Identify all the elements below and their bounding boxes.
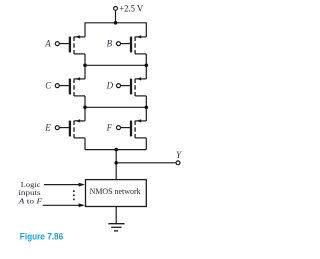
wire link row2	[85, 106, 146, 108]
svg-text:+2.5 V: +2.5 V	[119, 3, 143, 13]
transistor A channel (dashed)	[73, 37, 75, 54]
transistor E source stub	[74, 120, 85, 122]
transistor C source stub	[74, 78, 85, 80]
transistor C source arrow	[75, 77, 80, 80]
transistor E channel (dashed)	[73, 121, 75, 138]
node output tap	[114, 161, 118, 165]
wire supply stem	[115, 10, 117, 22]
wire A drain down	[84, 54, 86, 65]
node link3 center	[114, 148, 118, 152]
transistor A drain stub	[74, 53, 85, 55]
transistor D (PMOS) gate circle	[117, 84, 121, 88]
wire output branch	[116, 162, 176, 164]
NMOS network box	[86, 180, 147, 207]
input arrow bottom	[43, 204, 80, 206]
wire top rail	[85, 23, 146, 37]
transistor E source arrow	[75, 119, 80, 122]
transistor F gate bar	[130, 121, 132, 137]
ground	[108, 223, 124, 225]
transistor A source stub	[74, 36, 85, 38]
wire E drain down	[84, 138, 86, 150]
node link1 right	[145, 64, 149, 68]
input arrow top	[44, 184, 80, 186]
svg-text:NMOS network: NMOS network	[90, 187, 142, 196]
wire D drain down	[145, 96, 147, 107]
transistor B gate bar	[130, 37, 132, 53]
wire gate lead F	[121, 127, 130, 129]
wire center drop to box	[115, 150, 117, 180]
svg-text:C: C	[45, 80, 52, 90]
svg-text:B: B	[107, 38, 113, 48]
svg-text:A: A	[44, 38, 51, 48]
node supply tap	[114, 21, 118, 25]
svg-text:D: D	[106, 80, 114, 90]
node link2 right	[145, 106, 149, 110]
transistor C (PMOS) gate circle	[55, 84, 59, 88]
wire gate lead E	[59, 127, 69, 129]
svg-text:F: F	[106, 122, 113, 132]
wire down to F source	[145, 107, 147, 121]
transistor A (PMOS) gate circle	[55, 42, 59, 46]
transistor C drain stub	[74, 95, 85, 97]
wire link row3	[85, 149, 146, 151]
transistor D source arrow	[136, 77, 141, 80]
transistor E drain stub	[74, 137, 85, 139]
ellipsis dots	[73, 190, 75, 192]
transistor F source arrow	[136, 119, 141, 122]
transistor A source arrow	[75, 35, 80, 38]
transistor E (PMOS) gate circle	[55, 126, 59, 130]
output terminal Y	[176, 161, 180, 165]
transistor B channel (dashed)	[134, 37, 136, 54]
wire gate lead A	[59, 43, 69, 45]
node link2 left	[83, 106, 87, 110]
wire down to E source	[84, 107, 86, 121]
transistor F (PMOS) gate circle	[117, 126, 121, 130]
wire C drain down	[84, 96, 86, 107]
svg-text:Figure 7.86: Figure 7.86	[20, 231, 63, 242]
wire gate lead C	[59, 85, 69, 87]
svg-text:E: E	[44, 122, 51, 132]
transistor C gate bar	[69, 79, 71, 95]
wire box to ground	[115, 207, 117, 224]
transistor F drain stub	[135, 137, 146, 139]
transistor D drain stub	[135, 95, 146, 97]
transistor B (PMOS) gate circle	[117, 42, 121, 46]
wire B drain down	[145, 54, 147, 65]
transistor C channel (dashed)	[73, 79, 75, 96]
junction dots	[73, 21, 148, 200]
transistor B source stub	[135, 36, 146, 38]
wire down to D source	[145, 65, 147, 79]
wire F drain down	[145, 138, 147, 150]
transistor F source stub	[135, 120, 146, 122]
wire link row1	[85, 64, 146, 66]
transistor B drain stub	[135, 53, 146, 55]
supply terminal +2.5 V	[114, 6, 118, 10]
transistor E gate bar	[69, 121, 71, 137]
wire down to C source	[84, 65, 86, 79]
wire gate lead B	[121, 43, 130, 45]
transistor A gate bar	[69, 37, 71, 53]
transistor F channel (dashed)	[134, 121, 136, 138]
node link1 left	[83, 64, 87, 68]
svg-text:Y: Y	[176, 150, 182, 160]
transistor D channel (dashed)	[134, 79, 136, 96]
wire gate lead D	[121, 85, 130, 87]
svg-text:A to F: A to F	[17, 196, 42, 205]
transistor D source stub	[135, 78, 146, 80]
transistor D gate bar	[130, 79, 132, 95]
transistor B source arrow	[136, 35, 141, 38]
